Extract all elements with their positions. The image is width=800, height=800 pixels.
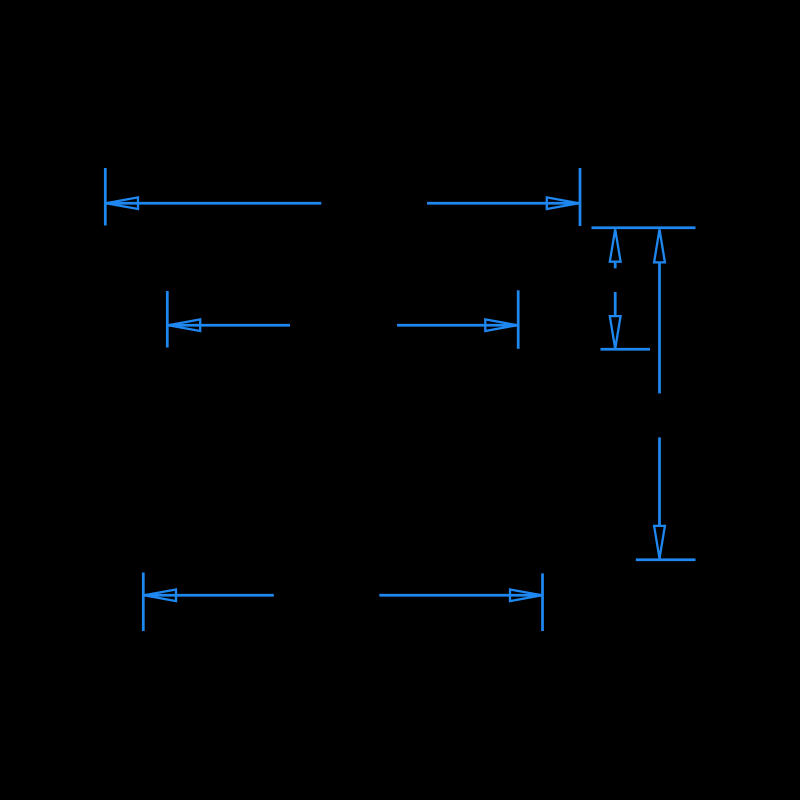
height dimension upper stem [658,262,661,393]
height dimension up arrowhead [654,229,665,262]
stand-width dimension line left segment [144,594,274,597]
overall-width left arrowhead [106,197,138,209]
stand-width right arrowhead [510,590,542,602]
extension line right of overall-width dimension [579,168,582,226]
extension line right of screen-width dimension [517,290,520,349]
extension line left of screen-width dimension [166,291,169,348]
bezel-depth dimension upper stub stem [614,262,617,268]
height dimension down arrowhead [654,526,665,559]
overall-width dimension line right segment [427,202,579,205]
middle reference tick (bezel-depth) [601,348,651,351]
screen-width dimension line right segment [397,324,517,327]
screen-width dimension line left segment [168,324,290,327]
stand-width left arrowhead [144,590,176,602]
bezel-depth dimension down arrowhead [610,316,621,349]
stand-width dimension line right segment [379,594,542,597]
top reference tick (right side) [592,226,696,229]
screen-width left arrowhead [168,319,200,331]
overall-width dimension line left segment [106,202,321,205]
screen-width right arrowhead [485,319,517,331]
bezel-depth dimension up arrowhead [610,229,621,261]
extension line left of stand-width dimension [142,573,145,632]
bottom reference tick (height) [636,558,696,561]
bezel-depth dimension lower stem [614,292,617,316]
extension line left of overall-width dimension [104,168,107,226]
height dimension lower stem [658,437,661,525]
TV body (solid black front panel) [104,168,696,631]
extension line right of stand-width dimension [541,573,544,631]
overall-width right arrowhead [547,197,579,209]
